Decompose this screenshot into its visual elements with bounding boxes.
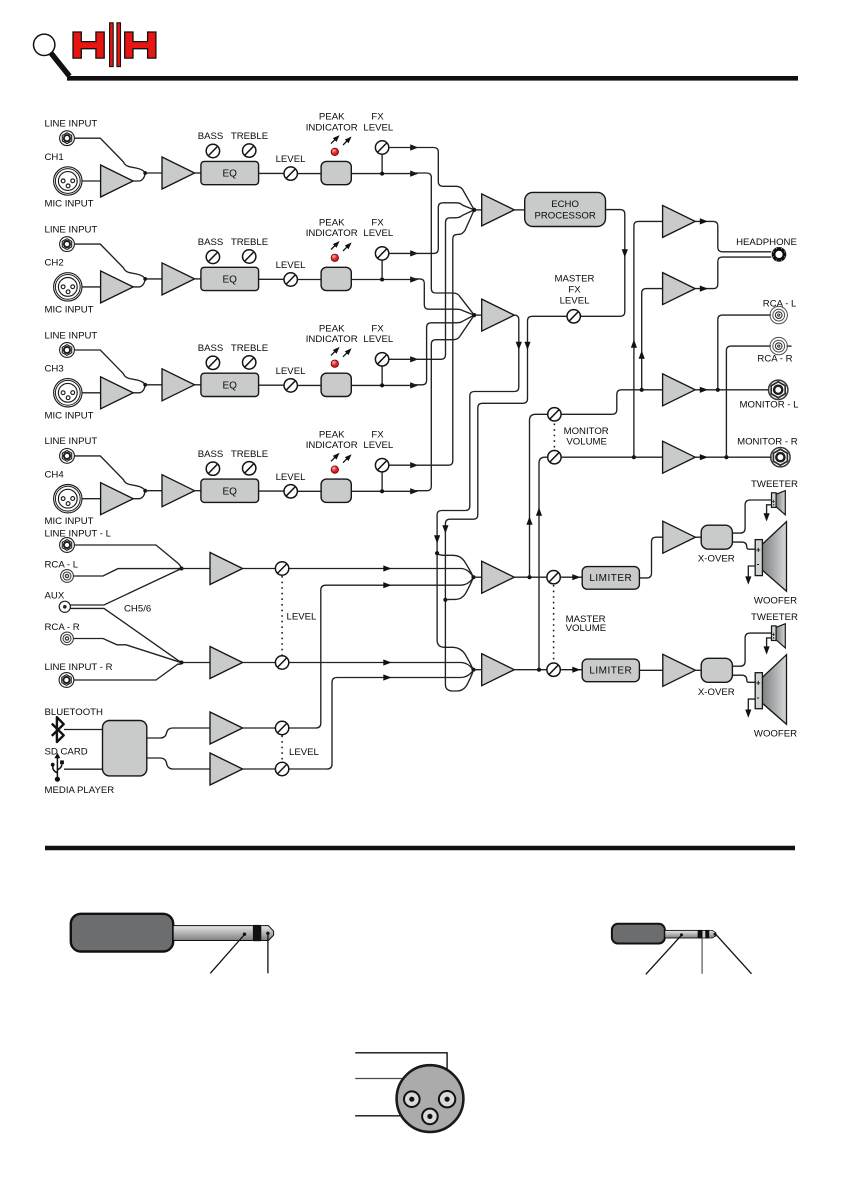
wire C main L to monitor volume bbox=[530, 414, 548, 577]
svg-text:CH3: CH3 bbox=[45, 364, 64, 375]
wire ch56 L amp to level bbox=[243, 568, 276, 570]
arrow A down 2 bbox=[434, 535, 440, 543]
wire mono bus to mono amp bbox=[474, 314, 482, 316]
callout mono sleeve bbox=[210, 935, 244, 974]
knob master volume L bbox=[547, 571, 560, 584]
svg-text:LIMITER: LIMITER bbox=[589, 573, 632, 584]
amp ch56 R bbox=[210, 647, 243, 679]
wire headphone amp2 out bbox=[695, 257, 771, 289]
stereo jack ring 2 bbox=[706, 930, 709, 939]
arrow media L bbox=[383, 582, 391, 588]
arrow ch56 L bbox=[383, 565, 391, 571]
stereo jack ring mid bbox=[702, 930, 706, 938]
connector RCA L bbox=[61, 570, 74, 583]
node main L bus junction bbox=[471, 575, 475, 579]
connector RCA R bbox=[61, 632, 74, 645]
svg-text:LEVEL: LEVEL bbox=[287, 612, 318, 623]
knob ch56 level R bbox=[275, 656, 288, 669]
arrow D up bbox=[536, 508, 542, 516]
HH logo left H bbox=[73, 32, 104, 58]
node RCA R tap bbox=[724, 455, 728, 459]
arrow A down 1 bbox=[516, 342, 522, 350]
mono jack plug handle bbox=[71, 914, 173, 952]
mono jack plug shaft bbox=[173, 926, 253, 941]
XLR pin 1 bbox=[404, 1091, 420, 1107]
node mono bus junction bbox=[472, 313, 476, 317]
logo diagonal stroke bbox=[51, 53, 70, 77]
arrow into limiter L bbox=[572, 574, 580, 580]
node main L monitor tap bbox=[527, 575, 531, 579]
svg-text:LINE INPUT - R: LINE INPUT - R bbox=[45, 662, 113, 673]
wire media L to main bus bbox=[290, 579, 473, 729]
arrow monitor R bbox=[700, 454, 708, 460]
wire main R bus to amp bbox=[474, 669, 482, 671]
svg-text:CH5/6: CH5/6 bbox=[124, 603, 151, 614]
svg-text:PROCESSOR: PROCESSOR bbox=[534, 211, 595, 222]
wire limiter L to power amp bbox=[639, 537, 662, 578]
wire headphone amp1 out bbox=[695, 221, 771, 251]
svg-text:MEDIA PLAYER: MEDIA PLAYER bbox=[45, 785, 115, 796]
block echo processor bbox=[525, 192, 606, 226]
svg-text:LINE INPUT - L: LINE INPUT - L bbox=[45, 528, 112, 539]
knob master fx level bbox=[567, 310, 580, 323]
icon usb bbox=[53, 757, 62, 778]
arrow into limiter R bbox=[572, 667, 580, 673]
dotted master volume link bbox=[553, 585, 555, 663]
svg-text:HEADPHONE: HEADPHONE bbox=[736, 237, 797, 248]
wire AUX to R bus bbox=[71, 608, 182, 662]
wire ch56 R to main bus bbox=[289, 663, 473, 670]
connector line input L jack bbox=[60, 538, 75, 553]
wire main L amp to master volume bbox=[514, 576, 547, 578]
node main R bus junction bbox=[471, 668, 475, 672]
callout stereo sleeve bbox=[646, 935, 682, 974]
dotted ch56 level link bbox=[281, 576, 283, 655]
svg-text:ECHO: ECHO bbox=[551, 199, 579, 210]
wire line input L bbox=[74, 545, 182, 569]
knob monitor volume L bbox=[548, 408, 561, 421]
wire main R amp to master volume bbox=[514, 669, 547, 671]
wire B branch to main L bus bbox=[445, 579, 473, 600]
amp fx sum bbox=[482, 194, 515, 226]
callout stereo ring bbox=[701, 938, 703, 974]
wire F monitor R to headphone amp bbox=[634, 221, 663, 457]
arrow ch56 R bbox=[383, 659, 391, 665]
wire ch56 L bus to amp bbox=[182, 568, 211, 570]
knob media level L bbox=[275, 721, 288, 734]
arrow media R bbox=[383, 674, 391, 680]
dotted media level link bbox=[281, 736, 283, 763]
wire ch56 R amp to level bbox=[243, 662, 276, 664]
wire A branch to main L bus bbox=[437, 553, 473, 576]
wire CH4 fx send to fx bus bbox=[410, 210, 474, 465]
svg-text:SD CARD: SD CARD bbox=[45, 747, 88, 758]
amp headphone 1 bbox=[663, 205, 696, 237]
arrow F up bbox=[631, 340, 637, 348]
svg-text:LEVEL: LEVEL bbox=[289, 747, 320, 758]
node fx bus junction bbox=[472, 208, 476, 212]
mono jack sleeve dot bbox=[243, 933, 246, 936]
svg-text:CH4: CH4 bbox=[45, 470, 65, 481]
wire RCA L in bbox=[74, 569, 182, 576]
connector headphone jack bbox=[772, 248, 786, 262]
wire line input R bbox=[74, 663, 182, 681]
XLR pinout callout 1 bbox=[355, 1053, 447, 1095]
divider rule bbox=[45, 846, 795, 850]
svg-text:MONITOR - R: MONITOR - R bbox=[737, 437, 798, 448]
arrow echo feed down bbox=[622, 249, 628, 257]
wire CH3 main to mono bus bbox=[410, 315, 474, 385]
HH logo bars bbox=[110, 23, 121, 67]
wire fx bus to fx amp bbox=[474, 209, 482, 211]
stereo jack tip dot bbox=[714, 933, 717, 936]
mono jack tip dot bbox=[266, 932, 269, 935]
channel 4 strip bbox=[45, 429, 419, 527]
svg-text:FX: FX bbox=[568, 284, 581, 295]
wire CH4 main to mono bus bbox=[410, 315, 474, 491]
amp ch56 L bbox=[210, 553, 243, 585]
amp monitor R bbox=[663, 441, 696, 473]
amp main L sum bbox=[482, 561, 515, 593]
svg-text:MONITOR: MONITOR bbox=[564, 426, 609, 437]
arrow B down 1 bbox=[524, 342, 530, 350]
wire echo to master fx level bbox=[580, 210, 624, 317]
stereo jack sleeve dot bbox=[680, 933, 683, 936]
wire monitor volume L to amp bbox=[561, 390, 663, 415]
knob monitor volume R bbox=[548, 451, 561, 464]
wire fx amp to echo processor bbox=[514, 209, 524, 211]
svg-text:RCA - L: RCA - L bbox=[763, 299, 797, 310]
HH logo right H bbox=[125, 32, 156, 58]
svg-text:RCA - R: RCA - R bbox=[757, 354, 792, 365]
connector RCA R bbox=[770, 337, 787, 354]
wire E monitor L to headphone amp bbox=[642, 289, 663, 390]
connector monitor L bbox=[769, 380, 788, 399]
amp headphone 2 bbox=[663, 273, 696, 305]
wire bluetooth to media box bbox=[64, 729, 103, 731]
speaker block R bbox=[663, 612, 798, 740]
arrow headphone amp2 bbox=[700, 286, 708, 292]
amp mono sum bbox=[482, 299, 515, 331]
wire CH2 main to mono bus bbox=[410, 279, 474, 315]
wire ch56 R bus to amp bbox=[182, 662, 211, 664]
wire ch56 L to main bus bbox=[289, 569, 473, 577]
svg-text:LIMITER: LIMITER bbox=[589, 666, 632, 677]
node ch56 L bus bbox=[180, 567, 184, 571]
node monitor R headphone tap bbox=[632, 455, 636, 459]
stereo jack plug shaft bbox=[665, 930, 698, 938]
channel 1 strip bbox=[45, 112, 419, 210]
amp monitor L bbox=[663, 374, 696, 406]
XLR pinout callout 2 bbox=[355, 1079, 412, 1096]
wire master volume L to limiter bbox=[560, 576, 582, 578]
svg-text:MASTER: MASTER bbox=[555, 274, 595, 285]
wire AUX to L bus bbox=[71, 569, 182, 606]
wire CH1 main to mono bus bbox=[410, 173, 474, 315]
svg-text:AUX: AUX bbox=[45, 591, 65, 602]
wire monitor R out bbox=[695, 456, 772, 458]
node ch56 R bus bbox=[180, 661, 184, 665]
connector RCA L bbox=[770, 306, 787, 323]
wire media box out L bbox=[147, 728, 210, 738]
node A branch bbox=[435, 551, 439, 555]
wire media L amp to level bbox=[243, 727, 276, 729]
svg-text:RCA - R: RCA - R bbox=[45, 622, 80, 633]
wire CH3 fx send to fx bus bbox=[410, 210, 474, 359]
mono jack plug ring bbox=[253, 925, 260, 941]
stereo jack tip bbox=[709, 930, 716, 938]
wire RCA R stub bbox=[787, 345, 792, 347]
node RCA L tap bbox=[716, 388, 720, 392]
knob master volume R bbox=[547, 663, 560, 676]
arrow B down 2 bbox=[442, 525, 448, 533]
XLR pinout callout 3 bbox=[355, 1115, 426, 1117]
connector line input R jack bbox=[59, 673, 74, 688]
mono jack plug tip bbox=[261, 926, 274, 941]
wire B master fx return bbox=[445, 316, 567, 691]
amp main R sum bbox=[482, 654, 515, 686]
wire monitor volume R to amp bbox=[561, 456, 663, 458]
connector monitor R bbox=[771, 448, 790, 467]
wire A mono feed bbox=[437, 315, 519, 669]
stereo jack ring 1 bbox=[698, 930, 702, 939]
XLR pinout body bbox=[397, 1065, 464, 1132]
svg-text:RCA - L: RCA - L bbox=[45, 560, 79, 571]
dotted monitor volume link bbox=[553, 424, 555, 450]
svg-text:CH2: CH2 bbox=[45, 258, 64, 269]
speaker block L bbox=[663, 479, 798, 607]
wire main L bus to amp bbox=[474, 576, 482, 578]
wire RCA L feed bbox=[718, 315, 771, 390]
wire RCA R in bbox=[74, 639, 182, 663]
arrow C up bbox=[526, 517, 532, 525]
wire media box out R bbox=[147, 758, 210, 769]
node main R monitor tap bbox=[537, 668, 541, 672]
node monitor L headphone tap bbox=[640, 388, 644, 392]
svg-text:CH1: CH1 bbox=[45, 152, 64, 163]
wire D main R to monitor volume bbox=[539, 457, 548, 670]
callout stereo tip bbox=[716, 934, 752, 973]
wire master volume R to limiter bbox=[560, 669, 582, 671]
node B branch bbox=[443, 598, 447, 602]
wire media R amp to level bbox=[243, 768, 276, 770]
block limiter L bbox=[582, 567, 639, 590]
stereo jack plug handle bbox=[612, 924, 665, 944]
wire limiter R to power amp bbox=[639, 669, 662, 671]
block media player bbox=[103, 721, 147, 776]
wire CH1 fx send to fx bus bbox=[410, 148, 474, 210]
svg-text:VOLUME: VOLUME bbox=[566, 436, 607, 447]
svg-text:MONITOR - L: MONITOR - L bbox=[740, 400, 800, 411]
XLR pin 3 bbox=[422, 1109, 438, 1125]
wire RCA R feed bbox=[726, 346, 771, 457]
svg-text:BLUETOOTH: BLUETOOTH bbox=[45, 707, 104, 718]
svg-text:VOLUME: VOLUME bbox=[566, 623, 607, 634]
knob ch56 level L bbox=[275, 562, 288, 575]
block limiter R bbox=[582, 659, 639, 682]
wire usb to media box bbox=[64, 768, 103, 770]
header rule bbox=[67, 76, 798, 81]
channel 3 strip bbox=[45, 323, 419, 421]
knob media level R bbox=[275, 762, 288, 775]
amp media R bbox=[210, 753, 243, 785]
wire CH2 fx send to fx bus bbox=[410, 203, 474, 254]
connector AUX bbox=[59, 601, 70, 612]
amp media L bbox=[210, 712, 243, 744]
arrow headphone amp1 bbox=[700, 218, 708, 224]
callout mono tip bbox=[267, 935, 269, 974]
wire media R to main bus bbox=[290, 671, 473, 769]
icon bluetooth bbox=[52, 717, 64, 742]
logo circle bbox=[34, 34, 55, 55]
svg-text:LEVEL: LEVEL bbox=[560, 295, 591, 306]
arrow monitor L bbox=[700, 387, 708, 393]
arrow E up bbox=[639, 351, 645, 359]
channel 2 strip bbox=[45, 218, 419, 316]
XLR pin 2 bbox=[439, 1091, 455, 1107]
wire monitor L out bbox=[695, 389, 769, 391]
